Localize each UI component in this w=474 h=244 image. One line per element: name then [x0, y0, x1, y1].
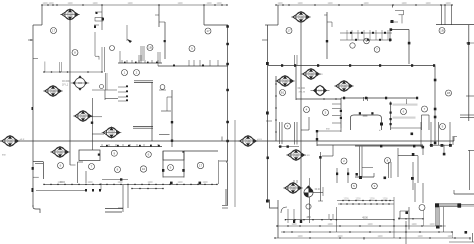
- svg-text:17: 17: [52, 29, 56, 33]
- svg-text:1200: 1200: [87, 182, 93, 184]
- svg-text:0.000: 0.000: [245, 141, 252, 144]
- svg-text:1200: 1200: [377, 236, 383, 238]
- svg-text:1200: 1200: [216, 3, 222, 5]
- svg-text:+x.x: +x.x: [257, 138, 263, 141]
- svg-text:0.000: 0.000: [290, 188, 297, 191]
- svg-text:1200: 1200: [291, 224, 297, 226]
- svg-text:1200: 1200: [355, 198, 361, 200]
- svg-text:17: 17: [206, 29, 210, 33]
- svg-text:1200: 1200: [327, 3, 333, 5]
- svg-text:1200: 1200: [382, 198, 388, 200]
- svg-text:1200: 1200: [177, 182, 183, 184]
- svg-text:1200: 1200: [48, 3, 54, 5]
- svg-text:1200: 1200: [42, 3, 48, 5]
- svg-text:1200: 1200: [177, 3, 183, 5]
- svg-text:1200: 1200: [445, 3, 451, 5]
- svg-text:0.000: 0.000: [282, 81, 289, 84]
- svg-text:1200: 1200: [297, 3, 303, 5]
- svg-text:x.xx: x.xx: [305, 154, 310, 157]
- svg-text:1200: 1200: [343, 198, 349, 200]
- svg-text:1200: 1200: [327, 224, 333, 226]
- svg-text:1200: 1200: [429, 224, 435, 226]
- svg-text:1200: 1200: [92, 3, 98, 5]
- svg-text:xxx.xx: xxx.xx: [299, 92, 306, 94]
- svg-text:4500: 4500: [362, 216, 368, 220]
- svg-text:1200: 1200: [363, 3, 369, 5]
- svg-text:0.000: 0.000: [109, 133, 116, 136]
- svg-text:1200: 1200: [337, 236, 343, 238]
- svg-text:1200: 1200: [206, 3, 212, 5]
- svg-text:1200: 1200: [57, 182, 63, 184]
- svg-text:1200: 1200: [447, 236, 453, 238]
- svg-text:10: 10: [142, 167, 146, 171]
- svg-text:0.0: 0.0: [318, 90, 322, 93]
- svg-text:17: 17: [287, 29, 291, 33]
- svg-text:1200: 1200: [367, 224, 373, 226]
- svg-text:0.0: 0.0: [78, 81, 82, 85]
- svg-text:1200: 1200: [202, 182, 208, 184]
- svg-text:450: 450: [306, 215, 311, 219]
- svg-text:1200: 1200: [411, 224, 417, 226]
- svg-text:1200: 1200: [147, 182, 153, 184]
- svg-text:1200: 1200: [401, 3, 407, 5]
- svg-text:1200: 1200: [277, 3, 283, 5]
- svg-text:±0.000: ±0.000: [297, 87, 305, 90]
- svg-text:+x.x: +x.x: [20, 138, 26, 141]
- svg-text:1B: 1B: [447, 91, 451, 95]
- svg-text:0.000: 0.000: [341, 86, 348, 89]
- svg-text:17: 17: [199, 164, 203, 168]
- svg-text:1B: 1B: [148, 46, 152, 50]
- svg-text:0.000: 0.000: [50, 91, 57, 94]
- svg-text:1200: 1200: [127, 3, 133, 5]
- svg-text:1200: 1200: [425, 3, 431, 5]
- svg-text:1200: 1200: [297, 236, 303, 238]
- svg-text:B1: B1: [281, 91, 285, 95]
- svg-text:1200: 1200: [67, 3, 73, 5]
- svg-text:1B: 1B: [440, 29, 444, 33]
- svg-text:1200: 1200: [417, 236, 423, 238]
- svg-text:0.000: 0.000: [7, 141, 14, 144]
- svg-text:0.000: 0.000: [308, 74, 315, 77]
- svg-text:±0.00: ±0.00: [315, 188, 322, 191]
- svg-text:1200: 1200: [117, 182, 123, 184]
- svg-text:1200: 1200: [369, 198, 375, 200]
- svg-text:0.000: 0.000: [293, 155, 300, 158]
- svg-text:0.000: 0.000: [80, 116, 87, 119]
- svg-text:x.xx: x.xx: [318, 73, 323, 76]
- svg-text:0.000: 0.000: [298, 17, 305, 20]
- svg-text:±0.000: ±0.000: [62, 79, 70, 83]
- svg-text:1F L1: 1F L1: [62, 84, 69, 87]
- svg-text:0.000: 0.000: [67, 15, 74, 18]
- svg-text:0.000: 0.000: [57, 152, 64, 155]
- svg-text:+: +: [379, 128, 381, 132]
